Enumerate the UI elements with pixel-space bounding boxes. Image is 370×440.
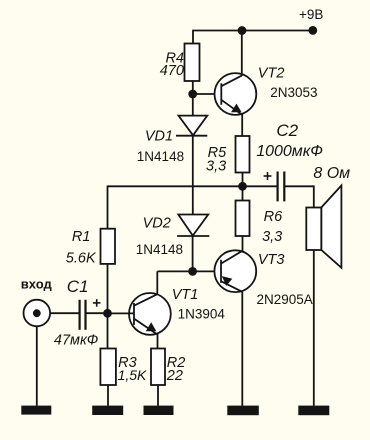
svg-text:3,3: 3,3 <box>262 229 282 245</box>
wire VT2 collector to rail <box>241 31 243 77</box>
input connector X1 <box>24 300 51 327</box>
resistor R1 <box>101 229 116 264</box>
svg-text:R6: R6 <box>264 209 283 225</box>
svg-text:3,3: 3,3 <box>206 159 226 175</box>
svg-text:470: 470 <box>160 63 184 79</box>
wire VT2 base <box>193 93 215 95</box>
capacitor C2 <box>278 172 285 202</box>
wire VT1 base <box>108 312 135 314</box>
capacitor C1 <box>80 300 86 330</box>
svg-text:22: 22 <box>166 368 183 384</box>
wire R2 to ground <box>157 385 159 406</box>
wire R6 bottom to VT3 collector <box>242 236 244 251</box>
wire C2 to speaker <box>285 186 314 207</box>
wire R6 top <box>242 186 244 200</box>
wire middle rail R1 to C2 <box>108 185 278 187</box>
ground VT3 <box>227 406 258 416</box>
wire VT3 emitter to ground <box>241 292 243 406</box>
svg-text:1N4148: 1N4148 <box>137 149 184 164</box>
wire top power rail <box>193 30 313 32</box>
ground R2 <box>144 406 174 415</box>
svg-text:1000мкФ: 1000мкФ <box>256 143 323 160</box>
wire connector to ground <box>36 326 38 405</box>
diode VD1 <box>176 116 207 136</box>
transistor VT1 <box>129 293 171 335</box>
resistor R6 <box>236 201 250 237</box>
speaker LS1 <box>306 186 341 268</box>
wire C1 to input node <box>87 312 108 314</box>
svg-text:1N4148: 1N4148 <box>136 242 183 257</box>
node output junction R5/R6/C2 <box>238 182 247 191</box>
resistor R3 <box>100 349 116 386</box>
svg-text:2N3053: 2N3053 <box>270 85 317 100</box>
svg-text:C2: C2 <box>276 121 298 140</box>
wire VD2 node rail to VT3 base <box>157 270 214 272</box>
wire VD2 cathode down to node <box>192 236 194 271</box>
node +9V terminal dot <box>308 26 317 35</box>
wire node to R3 <box>107 313 109 348</box>
wire connector to C1 <box>50 312 78 314</box>
svg-text:5.6K: 5.6K <box>66 250 97 266</box>
svg-text:1N3904: 1N3904 <box>178 306 226 321</box>
svg-text:47мкФ: 47мкФ <box>54 333 98 349</box>
resistor R5 <box>236 136 250 173</box>
diode VD2 <box>177 215 209 237</box>
ground input <box>21 406 51 415</box>
svg-text:VT3: VT3 <box>258 252 285 268</box>
transistor VT2 <box>215 73 257 115</box>
wire R1 bottom to input node <box>107 264 109 313</box>
resistor R4 <box>185 44 200 82</box>
node input junction C1/R1/R3/VT1 base <box>103 309 112 318</box>
ground R3 <box>92 406 123 415</box>
svg-text:C1: C1 <box>67 277 89 296</box>
svg-text:R1: R1 <box>72 229 91 245</box>
svg-text:вход: вход <box>21 277 53 292</box>
wire VT1 collector up and right to node <box>156 271 158 294</box>
svg-text:VT2: VT2 <box>258 66 285 82</box>
node junction VD2 / VT1 collector / VT3 base <box>188 267 197 276</box>
wire VD1 cathode to VD2 anode <box>192 136 194 215</box>
C2 plus sign <box>264 172 272 180</box>
svg-text:8 Ом: 8 Ом <box>313 165 350 182</box>
transistor VT3 <box>214 250 256 292</box>
node rail junction at VT2 collector <box>238 26 247 35</box>
svg-text:+9В: +9В <box>299 7 323 22</box>
wire R1 top from middle rail <box>107 186 109 229</box>
svg-text:VD2: VD2 <box>143 216 171 232</box>
C1 plus sign <box>93 299 101 307</box>
svg-text:VT1: VT1 <box>172 287 199 303</box>
svg-text:VD1: VD1 <box>145 128 173 144</box>
svg-text:2N2905A: 2N2905A <box>257 292 313 307</box>
node junction R4 / VD1 / VT2 base <box>188 90 197 99</box>
wire rail corner down to R4 <box>192 30 194 44</box>
wire speaker to ground <box>313 250 315 406</box>
wire VT2 emitter to R5 <box>241 114 243 136</box>
svg-text:1,5K: 1,5K <box>118 367 147 383</box>
wire R5 bottom to output node <box>242 173 244 187</box>
wire R4 bottom to VD1 anode <box>192 81 194 116</box>
resistor R2 <box>151 349 165 386</box>
wire R3 to ground <box>107 385 109 406</box>
ground speaker <box>298 406 329 416</box>
wire VT1 emitter to R2 <box>157 334 159 349</box>
